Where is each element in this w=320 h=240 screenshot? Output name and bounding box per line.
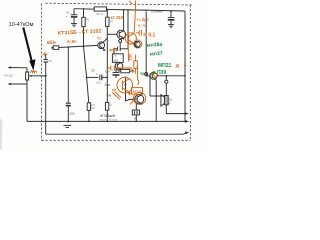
svg-text:R1: R1 [86, 17, 90, 21]
node wiper junction [45, 75, 47, 77]
svg-text:10-47кОм: 10-47кОм [9, 22, 34, 28]
orange marks near R2 top [92, 69, 95, 73]
node rail bottom junctions [135, 121, 137, 123]
resistor R14 lower vertical [106, 77, 108, 102]
component with hatch (electrolytic can) [135, 104, 137, 110]
orange text 150 vertical [127, 53, 132, 60]
wire divider mid [84, 46, 89, 102]
node test point on speaker branch [165, 76, 167, 80]
wire input common to bottom [27, 120, 46, 122]
orange strokes near T5 [151, 72, 158, 79]
orange text A-Zh [67, 39, 78, 45]
wire stage1 to T2 with series resistor R3 [51, 47, 53, 49]
label electrolytic bottom [100, 114, 116, 118]
input terminal arrow upper [9, 67, 28, 69]
svg-text:400Р: 400Р [109, 48, 119, 53]
svg-text:10,0: 10,0 [96, 81, 102, 85]
svg-text:+: + [96, 72, 98, 76]
wire T5 emitter down [155, 80, 157, 121]
capacitor C12 top right with ground [170, 11, 172, 17]
svg-text:500: 500 [70, 112, 75, 116]
ground [71, 23, 77, 25]
speaker bottom to terminal [166, 105, 185, 114]
resistor R2 lower vertical [87, 103, 90, 111]
label 1,2V [105, 71, 112, 98]
label Vhod [4, 74, 13, 78]
orange vertical wire mid [127, 38, 129, 61]
transistor T1 [117, 30, 126, 39]
node [67, 46, 69, 48]
svg-text:пд: пд [140, 72, 145, 76]
svg-text:С2: С2 [48, 59, 52, 63]
orange text KT3107 [111, 15, 124, 20]
orange small marks top right [137, 17, 149, 22]
svg-text:150: 150 [127, 53, 132, 60]
svg-text:Вход: Вход [4, 74, 13, 78]
svg-text:1000мкФ: 1000мкФ [151, 9, 163, 13]
svg-text:Т1: Т1 [97, 37, 101, 41]
wire T5 row [145, 12, 147, 77]
orange wire from top border [134, 1, 135, 33]
resistor R7 vertical [106, 9, 108, 17]
svg-text:н, Д,ж: н, Д,ж [137, 17, 149, 22]
wire T1 base [107, 33, 117, 35]
svg-text:ЭГ325мкФ: ЭГ325мкФ [100, 114, 116, 118]
transistor T5 [150, 72, 157, 79]
orange text 400R [109, 48, 119, 53]
wire through big transistor [125, 77, 127, 102]
capacitor C5 on T1 emitter path [113, 48, 117, 50]
orange D after MP21 [176, 63, 187, 69]
input terminal arrow lower [9, 83, 28, 85]
svg-text:6БЬ: 6БЬ [47, 39, 57, 45]
capacitor C9 electrolytic vertical [115, 69, 117, 73]
T1 collector wire up [123, 10, 125, 29]
svg-text:мп37: мп37 [150, 51, 163, 58]
transistor T2 [98, 42, 105, 49]
orange label T1 [97, 37, 101, 41]
orange big transistor T4 [117, 77, 133, 93]
scan shadow left edge [0, 118, 3, 150]
svg-text:12ы: 12ы [105, 71, 110, 74]
svg-text:Н 0,1: Н 0,1 [143, 33, 155, 39]
svg-text:402: 402 [113, 58, 118, 62]
resistor R11 horizontal [118, 70, 121, 72]
wire speaker top [150, 95, 166, 97]
svg-text:и П39: и П39 [153, 70, 167, 76]
svg-text:Д: Д [176, 63, 180, 69]
svg-text:кт 310: кт 310 [111, 15, 124, 20]
wire bottom common out [46, 132, 188, 134]
svg-text:кл: кл [112, 88, 117, 92]
orange transistor big top [125, 33, 136, 44]
potentiometer R1 [26, 68, 28, 72]
svg-text:+: + [66, 15, 68, 19]
speaker Gr1 [164, 96, 168, 105]
orange cap with 0,1 [143, 33, 155, 39]
orange transistor 2 with black pair [134, 40, 142, 48]
capacitor C2 input coupling [45, 55, 47, 60]
resistor R1 vertical [83, 9, 85, 17]
dashed amplifier boundary box [42, 3, 193, 140]
capacitor C4 bottom electrolytic [67, 47, 69, 103]
wire mid vertical from rail [127, 10, 129, 49]
svg-text:А-Ж-: А-Ж- [67, 39, 78, 45]
svg-text:R7: R7 [110, 19, 114, 23]
orange strokes lower left of T4 [112, 92, 120, 99]
orange transistor ring over T6 [134, 92, 146, 104]
node test point under T1 [119, 40, 122, 43]
chassis ground tick [64, 124, 72, 126]
transistor T3 [115, 62, 123, 70]
svg-text:R5 1к: R5 1к [97, 12, 104, 16]
node rail junctions [106, 9, 108, 11]
orange resistor vertical [134, 61, 137, 69]
top supply rail [74, 9, 185, 11]
node rail R1 [83, 8, 85, 10]
transistor T6 output [135, 95, 144, 104]
capacitor C1 with ground [73, 9, 75, 15]
orange text 6B [47, 39, 57, 45]
potentiometer wiper wire [29, 75, 46, 77]
orange text KT315B -> KT3102 [58, 29, 102, 37]
orange label box KT815 [132, 88, 143, 95]
svg-text:МП21: МП21 [158, 63, 172, 69]
box GT402 label frame [112, 54, 123, 63]
orange mark near C2 [43, 53, 47, 56]
svg-text:мп38а: мп38а [147, 42, 163, 49]
label 10-47kOhm [9, 22, 34, 28]
big black arrow to potentiometer [22, 27, 35, 70]
orange scribble at potentiometer [31, 71, 37, 73]
bottom rail [46, 120, 186, 122]
capacitor C7 electrolytic horizontal [87, 76, 99, 78]
right supply vertical [184, 11, 186, 121]
orange wire with cap row [108, 67, 131, 69]
resistor R5 horizontal on rail [94, 7, 106, 11]
svg-text:н, н,: н, н, [138, 22, 146, 27]
svg-text:(2: (2 [92, 69, 95, 73]
